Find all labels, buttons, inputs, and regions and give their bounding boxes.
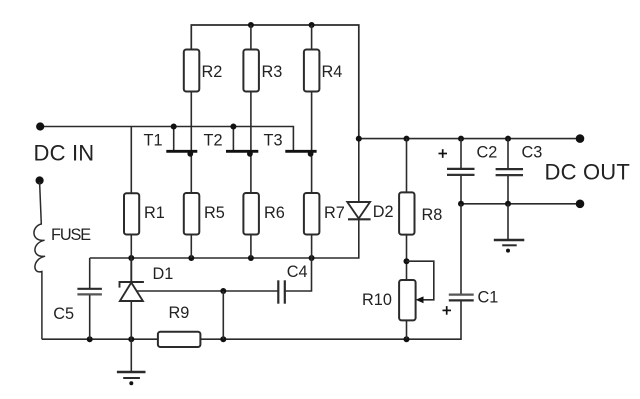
wire DC IN rail bbox=[40, 127, 293, 152]
wire DC OUT lower bbox=[461, 203, 580, 205]
fuse F1 bbox=[34, 182, 45, 339]
capacitor C5 bbox=[77, 258, 102, 339]
svg-text:R2: R2 bbox=[202, 63, 223, 81]
capacitor C3 bbox=[496, 139, 523, 204]
svg-text:C1: C1 bbox=[478, 288, 499, 306]
svg-text:T1: T1 bbox=[144, 132, 163, 150]
svg-text:DC IN: DC IN bbox=[34, 140, 95, 165]
svg-text:R10: R10 bbox=[362, 291, 392, 309]
node top rail R3 junction bbox=[248, 22, 254, 28]
node C5 bottom junction bbox=[87, 336, 93, 342]
node rail C2 bbox=[458, 136, 464, 142]
terminal DC IN + bbox=[36, 122, 44, 130]
transistor T2 bbox=[226, 127, 258, 157]
ground below D1 bbox=[117, 339, 146, 385]
svg-text:R7: R7 bbox=[324, 204, 345, 222]
resistor R6 bbox=[243, 193, 259, 235]
svg-text:C2: C2 bbox=[477, 144, 498, 162]
zener D1 bbox=[120, 258, 144, 339]
transistor T3 bbox=[285, 151, 316, 157]
wire bottom rail bbox=[42, 338, 158, 340]
capacitor C4 bbox=[278, 280, 285, 303]
terminal DC OUT - bbox=[576, 200, 585, 209]
wire top rail bbox=[191, 25, 358, 139]
svg-text:R3: R3 bbox=[262, 63, 283, 81]
plus C2 bbox=[439, 149, 448, 158]
resistor R7 bbox=[304, 193, 320, 235]
svg-text:FUSE: FUSE bbox=[51, 226, 91, 244]
capacitor C2 bbox=[447, 139, 475, 204]
svg-text:T2: T2 bbox=[204, 132, 223, 150]
wiper arrow bbox=[416, 296, 424, 303]
resistor R8 bbox=[399, 192, 414, 234]
terminal DC OUT + bbox=[576, 134, 585, 143]
ground below C3 bbox=[494, 204, 525, 253]
resistor R3 bbox=[243, 50, 259, 92]
node lower C1 bbox=[458, 201, 464, 207]
transistor T1 bbox=[166, 127, 197, 157]
svg-text:R1: R1 bbox=[144, 204, 165, 222]
node mid rail R6 bbox=[248, 255, 254, 261]
wire R10 wiper loop bbox=[407, 261, 434, 300]
wire R2 column bbox=[190, 92, 192, 194]
svg-text:T3: T3 bbox=[264, 132, 283, 150]
diode D2 bbox=[347, 139, 370, 220]
wire R3 column bbox=[250, 25, 252, 50]
wire mid rail bbox=[90, 220, 359, 259]
node feedback junction bbox=[220, 288, 226, 294]
plus C1 bbox=[443, 306, 452, 315]
wire D1 feedback bbox=[137, 290, 279, 292]
wire DC OUT rail bbox=[359, 138, 580, 140]
resistor R2 bbox=[184, 50, 200, 92]
svg-text:D2: D2 bbox=[373, 203, 394, 221]
node C4 branch bottom junction bbox=[220, 336, 226, 342]
capacitor C1 bbox=[449, 204, 474, 301]
node rail D2 bbox=[356, 136, 362, 142]
resistor R4 bbox=[304, 50, 320, 92]
resistor R5 bbox=[184, 193, 200, 235]
wire R6 to mid rail bbox=[250, 235, 252, 259]
wire bottom rail right of R9 bbox=[200, 301, 461, 340]
potentiometer R10 bbox=[399, 280, 416, 320]
node T1 gate bbox=[171, 124, 177, 130]
wire R10 bottom bbox=[406, 320, 408, 339]
wire R4 column bbox=[311, 25, 313, 50]
wire R8 column bbox=[406, 139, 408, 193]
wire feedback drop bbox=[222, 291, 224, 339]
node R8 bottom bbox=[404, 258, 410, 264]
wire R7 to mid rail bbox=[311, 235, 313, 259]
wire R1 to mid rail bbox=[130, 235, 132, 259]
wire R5 to mid rail bbox=[190, 235, 192, 259]
node rail R8 bbox=[404, 136, 410, 142]
wire R1 column bbox=[130, 127, 132, 194]
node R10 bottom junction bbox=[404, 336, 410, 342]
svg-text:R9: R9 bbox=[169, 304, 190, 322]
node mid rail R7/C4 bbox=[309, 255, 315, 261]
resistor R9 bbox=[158, 332, 201, 347]
node T2 gate bbox=[230, 124, 236, 130]
wire C4 right riser bbox=[285, 258, 312, 291]
svg-text:C4: C4 bbox=[287, 263, 308, 281]
svg-text:C5: C5 bbox=[53, 305, 74, 323]
node mid rail R1/D1 bbox=[128, 255, 134, 261]
svg-text:R6: R6 bbox=[264, 204, 285, 222]
terminal DC IN - bbox=[36, 176, 44, 184]
node top rail R4 junction bbox=[309, 22, 315, 28]
svg-text:R5: R5 bbox=[204, 204, 225, 222]
node mid rail R5 bbox=[188, 255, 194, 261]
node lower C3 bbox=[505, 201, 511, 207]
svg-text:DC OUT: DC OUT bbox=[545, 160, 631, 185]
svg-text:R4: R4 bbox=[322, 63, 343, 81]
svg-text:C3: C3 bbox=[522, 144, 543, 162]
svg-text:D1: D1 bbox=[153, 265, 174, 283]
node D1 bottom junction bbox=[128, 336, 134, 342]
node rail C3 bbox=[505, 136, 511, 142]
svg-text:R8: R8 bbox=[422, 206, 443, 224]
resistor R1 bbox=[124, 193, 139, 234]
wire R8 to R10 bbox=[406, 235, 408, 280]
